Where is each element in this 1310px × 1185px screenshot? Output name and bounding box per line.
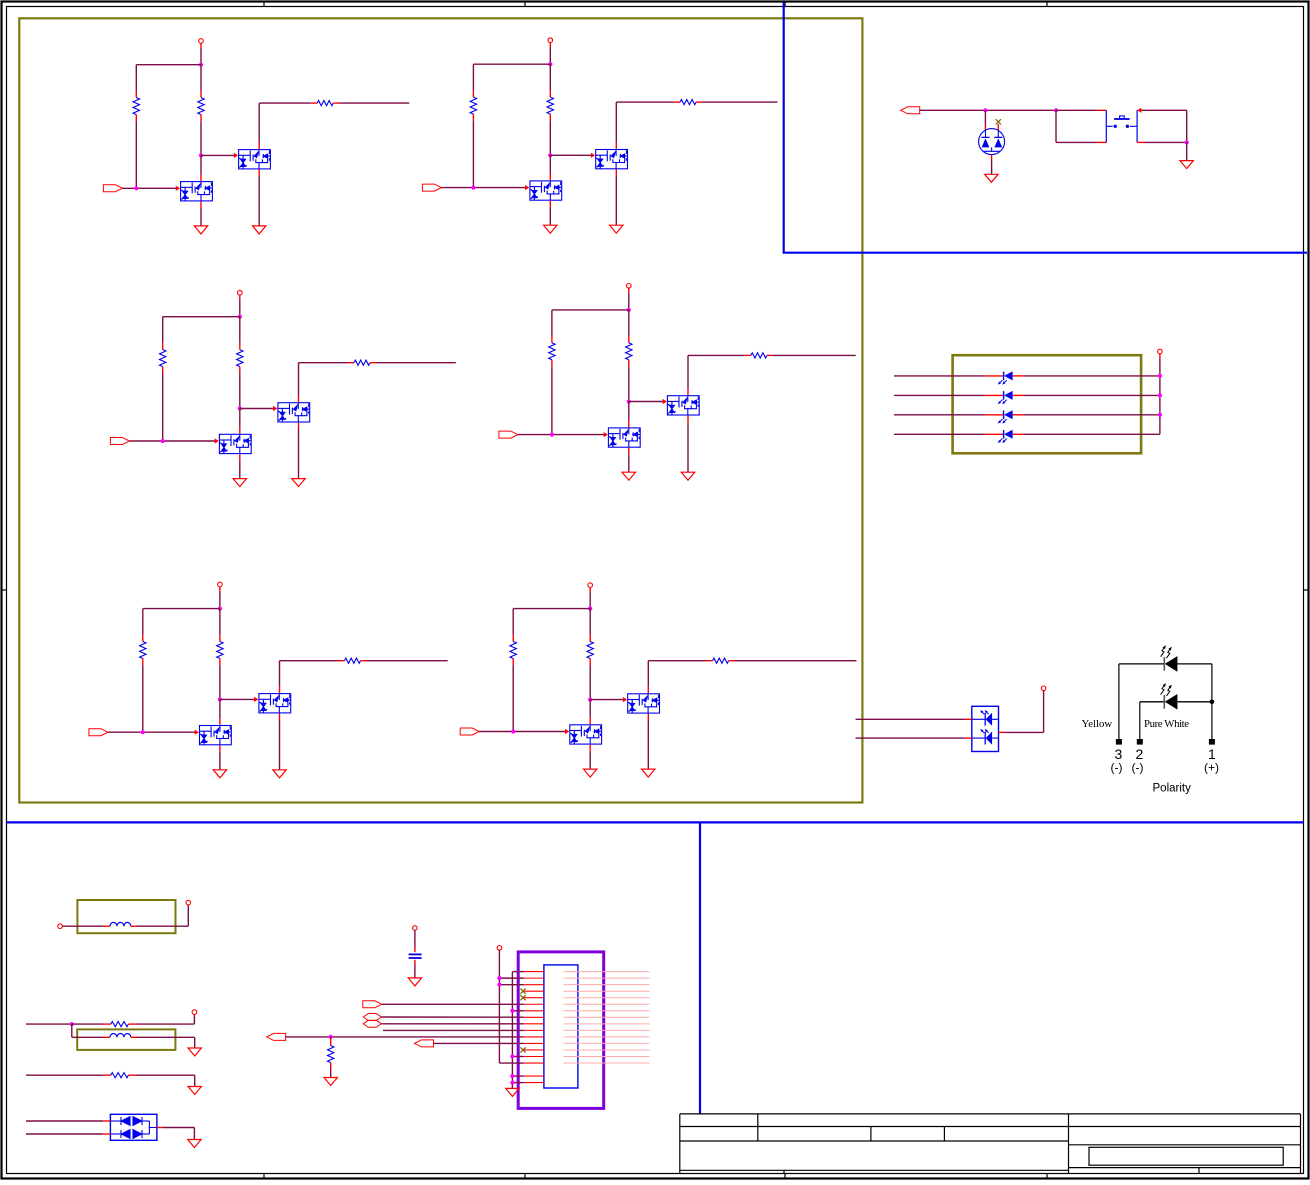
wire gate node to Q6B gate: [590, 697, 627, 702]
wire Q6B drain to output cell 6: [648, 661, 706, 694]
wire input to Q2A gate: [441, 185, 529, 190]
wire gate node to Q4B gate: [629, 399, 667, 404]
ground below Q1A: [194, 226, 207, 234]
wire VCC vertical cell 5: [219, 592, 221, 609]
label pin numbers: [1115, 746, 1217, 762]
wire VCC to gate-feed resistor cell 4: [628, 310, 630, 336]
wire gate node to Q1B gate: [201, 153, 238, 158]
dual diode D1 (in circle): [979, 129, 1005, 155]
wire LED2 cathode to bus: [1013, 394, 1160, 396]
wire LED2 anode: [894, 394, 1004, 396]
title block lines: [680, 1114, 1301, 1174]
wire F2 to ground: [131, 1037, 195, 1048]
resistor R21: [103, 1073, 136, 1078]
resistor R5C (output series): [339, 658, 367, 663]
wire Q6B source to ground: [647, 714, 649, 769]
wire Q3B drain to output cell 3: [299, 363, 349, 402]
wire connector ground bus vertical: [512, 972, 523, 1089]
resistor R6B (gate feed): [587, 635, 593, 666]
wire gate node vertical cell 3: [239, 373, 241, 408]
wire LED3 anode: [894, 414, 1004, 416]
connector body J1 (blue): [544, 965, 578, 1088]
svg-text:(-): (-): [1111, 761, 1123, 775]
TVS array box D7 (blue): [110, 1114, 156, 1140]
ground below Q2A: [544, 225, 557, 233]
resistor R2C (output series): [674, 100, 702, 105]
transistor Q4B (dual MOSFET block): [667, 396, 699, 415]
input port tag cell 4: [499, 431, 518, 438]
polarity diagram: pure white LED: [1140, 684, 1212, 710]
junction VCC cell 4: [627, 308, 631, 312]
wire left resistor to input net cell 2: [472, 121, 474, 188]
LED D4: [998, 410, 1012, 423]
transistor Q5B (dual MOSFET block): [259, 694, 291, 713]
power pin C1: [413, 926, 418, 931]
wire C1 bottom: [414, 960, 416, 978]
wire left resistor to input net cell 6: [512, 665, 514, 731]
resistor R4C (output series): [745, 353, 773, 358]
junction gate node cell 3: [238, 406, 242, 410]
wire gate node to Q4A drain cell 4: [628, 402, 630, 428]
wire gate node to Q3A drain cell 3: [239, 409, 241, 434]
transistor Q6A (dual MOSFET block): [570, 725, 602, 744]
connector J1 pin stubs: [524, 972, 544, 1083]
wire net A to J1: [382, 1003, 524, 1005]
wire VCC branch to left resistor cell 2: [473, 64, 550, 90]
junction VCC cell 2: [548, 62, 552, 66]
ground below Q4B: [681, 472, 694, 480]
wire VCC branch to left resistor cell 3: [163, 317, 240, 343]
svg-text:Polarity: Polarity: [1153, 783, 1192, 795]
diode pair row2 in D7: [110, 1130, 149, 1139]
wire net B to J1: [381, 1016, 523, 1018]
ground below Q6B: [642, 769, 655, 777]
resistor R4A (pull-up left): [549, 336, 555, 367]
junction gate node cell 6: [588, 698, 592, 702]
wire gate node vertical cell 2: [549, 121, 551, 155]
wire gate node to Q5B gate: [220, 697, 258, 702]
wire down to dual diode D1: [984, 110, 986, 130]
port tag net A (right-pointing): [363, 1001, 382, 1008]
wire top-right net horizontal: [920, 109, 1056, 111]
resistor R1C (output series): [311, 101, 339, 106]
transistor Q3B (dual MOSFET block): [278, 403, 310, 422]
ground below Q5A: [213, 770, 226, 778]
wire Q1B drain to output cell 1: [259, 103, 311, 149]
wire VCC to gate-feed resistor cell 5: [219, 609, 221, 635]
no-connect marks on J1 pins: [520, 989, 525, 1053]
wire Q3B source to ground: [298, 423, 300, 479]
wire gate node to Q5A drain cell 5: [219, 699, 221, 725]
wire input to Q4A gate: [518, 432, 608, 437]
wire LED4 cathode to bus: [1013, 433, 1160, 435]
transistor Q2A (dual MOSFET block): [530, 181, 562, 200]
connector J1 internal pin lines (pink): [564, 972, 650, 1063]
wire output cell 3: [376, 362, 456, 364]
transistor Q1B (dual MOSFET block): [239, 150, 271, 169]
wire Q4A source to ground: [628, 448, 630, 472]
wire left resistor to input net cell 5: [142, 665, 144, 732]
wire net2 branch into F2: [72, 1024, 110, 1037]
resistor R2A (pull-up left): [470, 90, 476, 121]
port tag net E (left-pointing): [267, 1033, 286, 1040]
label pin polarities: [1111, 761, 1220, 775]
wire output cell 5: [367, 660, 448, 662]
wire left resistor to input net cell 4: [551, 367, 553, 435]
wire Q5B drain to output cell 5: [280, 661, 339, 693]
junction input net cell 5: [141, 730, 145, 734]
resistor R4B (gate feed): [626, 336, 632, 367]
partition line (blue) top-right horizontal: [783, 252, 1307, 254]
junctions on power bus: [497, 976, 501, 987]
junction VCC cell 5: [218, 607, 222, 611]
wire LED bus vertical: [1159, 358, 1161, 434]
wire VCC vertical cell 3: [239, 300, 241, 317]
wire D1 to ground: [991, 155, 993, 175]
wire Q2B drain to output cell 2: [616, 102, 674, 149]
wire Q1A source to ground: [200, 202, 202, 226]
inductor L2: [110, 1034, 131, 1038]
wire VCC to gate-feed resistor cell 6: [589, 609, 591, 635]
junction input net cell 2: [471, 186, 475, 190]
no-connect X on D1 pin: [996, 119, 1001, 130]
ground below Q6A: [584, 769, 597, 777]
input port tag cell 2: [422, 184, 441, 191]
power pin VCC cell 5: [218, 582, 223, 591]
junction gate node cell 5: [218, 697, 222, 701]
wire LED1 anode: [894, 375, 1004, 377]
power pin LED bus: [1158, 349, 1163, 358]
wire VCC to gate-feed resistor cell 2: [549, 64, 551, 90]
ground group2: [188, 1048, 201, 1056]
wire D6 common to power pin: [999, 691, 1044, 733]
wire F1 to power pin: [131, 905, 189, 926]
junction gate node cell 1: [199, 153, 203, 157]
power pin VCC cell 6: [588, 583, 593, 592]
svg-text:Yellow: Yellow: [1082, 718, 1113, 730]
ground below D1: [985, 174, 998, 182]
wire Q4B drain to output cell 4: [688, 355, 745, 395]
wire net F to J1: [434, 1042, 524, 1044]
wire Q3A source to ground: [239, 454, 241, 478]
pin terminal left of F1: [58, 924, 63, 929]
wire VCC branch to left resistor cell 5: [143, 609, 220, 635]
transistor Q4A (dual MOSFET block): [608, 428, 640, 447]
input port tag cell 3: [110, 438, 129, 445]
wire D7 common to ground: [149, 1121, 194, 1140]
wire gate node vertical cell 5: [219, 665, 221, 699]
wire into D6 top: [856, 718, 972, 720]
resistor R1A (pull-up left): [133, 91, 139, 122]
wire LED1 cathode to bus: [1013, 375, 1160, 377]
LED pair inside D6: [972, 711, 999, 745]
ground connector bus: [506, 1088, 519, 1096]
wire VCC to gate-feed resistor cell 3: [239, 317, 241, 343]
wire output cell 6: [735, 660, 857, 662]
junction VCC cell 1: [199, 63, 203, 67]
wire LED3 cathode to bus: [1013, 414, 1160, 416]
push button SW1: [1106, 110, 1137, 142]
input port tag cell 6: [460, 728, 479, 735]
transistor Q2B (dual MOSFET block): [596, 150, 628, 169]
wire loop left of switch SW1: [1056, 110, 1106, 142]
wire net C to J1: [381, 1023, 523, 1025]
wire VCC vertical cell 1: [200, 48, 202, 65]
transistor Q1A (dual MOSFET block): [181, 182, 213, 201]
transistor Q5A (dual MOSFET block): [200, 726, 232, 745]
wire Q4B source to ground: [687, 416, 689, 473]
wire VCC branch to left resistor cell 6: [513, 609, 590, 635]
power pin connector bus: [497, 946, 502, 951]
wire Q2B source to ground: [615, 169, 617, 225]
input port tag cell 1: [103, 185, 122, 192]
junction on polarity anode bus: [1210, 700, 1215, 705]
ground below C1: [408, 978, 421, 986]
resistor R20: [72, 1022, 136, 1027]
wire Q5B source to ground: [279, 714, 281, 770]
port tag net F (left-pointing): [415, 1040, 434, 1047]
resistor R3C (output series): [348, 360, 376, 365]
wire output cell 2: [702, 101, 777, 103]
wire net3 from sheet edge: [26, 1074, 103, 1076]
junction at switch ground: [1185, 140, 1189, 144]
junction net2: [70, 1022, 74, 1026]
power pin group2: [192, 1010, 197, 1015]
connector outline J1 (purple): [518, 952, 604, 1109]
wire net D to J1: [383, 1029, 524, 1031]
LED D5: [998, 430, 1012, 443]
wire gate node to Q2B gate: [550, 153, 595, 158]
transistor Q6B (dual MOSFET block): [628, 694, 660, 713]
power pin VCC cell 1: [199, 39, 204, 48]
wire VCC branch to left resistor cell 1: [136, 65, 201, 91]
ground below Q3A: [233, 479, 246, 487]
svg-text:Pure White: Pure White: [1144, 718, 1189, 730]
polarity pin 3 lead: [1116, 664, 1121, 744]
port tag net B (oval): [363, 1014, 381, 1021]
resistor R22 (pull-down on net E): [328, 1037, 334, 1078]
port tag (left) top-right net: [901, 107, 920, 114]
wire left resistor to input net cell 3: [162, 373, 164, 441]
ground below Q1B: [253, 226, 266, 234]
ground below switch: [1180, 161, 1193, 169]
wire switch to ground: [1186, 142, 1188, 160]
junction at switch loop: [1054, 108, 1058, 112]
wire gate node vertical cell 4: [628, 367, 630, 402]
polarity diagram: yellow LED: [1119, 646, 1212, 672]
wire VCC branch to left resistor cell 4: [552, 310, 629, 336]
wire gate node vertical cell 6: [589, 665, 591, 699]
junction input net cell 1: [134, 186, 138, 190]
partition box (olive) around LED driver cells: [19, 18, 862, 802]
resistor R5B (gate feed): [217, 635, 223, 666]
resistor R3B (gate feed): [237, 343, 243, 374]
wire loop right of switch SW1: [1137, 108, 1187, 143]
svg-text:(-): (-): [1132, 761, 1144, 775]
wire input to Q1A gate: [122, 186, 180, 191]
wire gate node to Q3B gate: [240, 406, 277, 411]
partition line (blue) bottom vertical: [699, 822, 701, 1114]
wire Q1B source to ground: [258, 170, 260, 226]
wire VCC vertical cell 4: [628, 293, 630, 310]
wire input to Q6A gate: [479, 729, 569, 734]
wire Q5A source to ground: [219, 745, 221, 769]
junctions on ground bus: [510, 1009, 514, 1085]
ground below Q5B: [273, 770, 286, 778]
junction input net cell 4: [550, 433, 554, 437]
dual LED box D6 (blue): [972, 706, 999, 751]
LED array box (olive): [953, 355, 1142, 453]
resistor R1B (gate feed): [198, 91, 204, 122]
diode pair row1 in D7: [110, 1117, 149, 1126]
wire connector power bus vertical: [499, 950, 523, 1063]
junction VCC cell 6: [588, 607, 592, 611]
resistor R6A (pull-up left): [510, 635, 516, 666]
resistor R2B (gate feed): [547, 90, 553, 121]
junction net E: [329, 1035, 333, 1039]
transistor Q3A (dual MOSFET block): [219, 434, 251, 453]
junction input net cell 3: [161, 439, 165, 443]
wire input to Q5A gate: [108, 730, 199, 735]
polarity pin 1 lead: [1209, 664, 1214, 744]
wire net3 to ground: [136, 1075, 195, 1086]
ground below Q4A: [622, 472, 635, 480]
wire into F1: [62, 925, 110, 927]
power pin D6: [1041, 686, 1046, 691]
junctions LED bus: [1158, 374, 1162, 417]
wire gate node vertical cell 1: [200, 121, 202, 155]
wire net2 to power pin: [136, 1014, 194, 1024]
wire VCC to gate-feed resistor cell 1: [200, 65, 202, 91]
wire Q6A source to ground: [589, 745, 591, 769]
ground below R22: [324, 1078, 337, 1086]
wire gate node to Q6A drain cell 6: [589, 700, 591, 725]
wire into D7 line2: [26, 1133, 110, 1135]
wire LED4 anode: [894, 433, 1004, 435]
junction gate node cell 4: [627, 399, 631, 403]
ground below Q2B: [610, 225, 623, 233]
power pin VCC cell 3: [238, 290, 243, 299]
polarity pin 2 lead: [1137, 702, 1142, 744]
inductor L1: [110, 922, 131, 926]
power pin VCC cell 2: [548, 38, 553, 47]
partition line (blue) bottom horizontal: [7, 821, 1304, 823]
resistor R6C (output series): [707, 658, 735, 663]
capacitor C1: [409, 954, 422, 958]
junction at TVS branch: [983, 108, 987, 112]
wire C1 top: [414, 930, 416, 952]
wire output cell 4: [773, 354, 856, 356]
junction input net cell 6: [511, 729, 515, 733]
port tag net C (oval): [363, 1020, 381, 1027]
wire left resistor to input net cell 1: [135, 121, 137, 188]
junction VCC cell 3: [238, 315, 242, 319]
resistor R5A (pull-up left): [140, 635, 146, 666]
junction gate node cell 2: [548, 153, 552, 157]
svg-text:(+): (+): [1204, 761, 1219, 775]
filter box F1 (olive): [77, 900, 175, 933]
wire VCC vertical cell 2: [549, 47, 551, 64]
wire into D7 line1: [26, 1120, 110, 1122]
resistor R3A (pull-up left): [160, 343, 166, 374]
wire net E to J1: [286, 1036, 524, 1038]
power pin VCC cell 4: [627, 284, 632, 293]
filter box F2 (olive): [77, 1029, 175, 1050]
wire VCC vertical cell 6: [589, 592, 591, 609]
wire net2 from sheet edge: [26, 1023, 72, 1025]
input port tag cell 5: [89, 729, 108, 736]
wire input to Q3A gate: [129, 438, 218, 443]
ground group4: [188, 1140, 201, 1148]
wire output cell 1: [339, 102, 409, 104]
partition line (blue) top-right vertical: [783, 3, 785, 253]
wire gate node to Q1A drain cell 1: [200, 155, 202, 181]
ground group3: [188, 1087, 201, 1095]
ground below Q3B: [292, 479, 305, 487]
wire into D6 bottom: [856, 737, 972, 739]
LED D2: [998, 371, 1012, 384]
wire gate node to Q2A drain cell 2: [549, 155, 551, 180]
LED D3: [998, 391, 1012, 404]
power pin group1: [186, 900, 191, 905]
wire Q2A source to ground: [549, 201, 551, 225]
